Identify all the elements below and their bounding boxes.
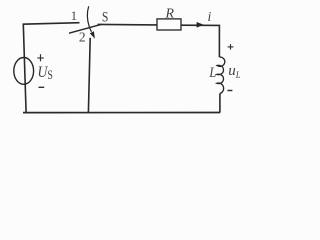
resistor R box bbox=[157, 19, 181, 30]
plus sign at source bbox=[37, 54, 43, 61]
svg-text:L: L bbox=[208, 65, 216, 81]
current arrowhead i bbox=[197, 22, 204, 28]
minus sign at source bbox=[39, 86, 45, 88]
switch arrowhead bbox=[90, 31, 95, 38]
wire: coil bottom to bottom wire bbox=[219, 94, 221, 113]
switch throw arc bbox=[87, 6, 91, 32]
wire: top-left wire, corner, left branch down to bottom bbox=[23, 23, 79, 113]
svg-text:1: 1 bbox=[71, 9, 77, 23]
svg-text:u: u bbox=[228, 63, 236, 79]
svg-text:S: S bbox=[47, 68, 53, 82]
wire: bottom wire bbox=[23, 112, 220, 114]
svg-text:2: 2 bbox=[79, 30, 86, 45]
wire: resistor to top-right corner down to coil bbox=[181, 25, 219, 57]
wire: switch pole to resistor bbox=[98, 23, 158, 26]
minus sign at uL bbox=[227, 90, 232, 92]
voltage source US circle bbox=[14, 58, 34, 85]
svg-text:R: R bbox=[165, 6, 175, 21]
svg-text:S: S bbox=[102, 10, 109, 26]
inductor L coil bbox=[217, 57, 225, 94]
svg-text:i: i bbox=[208, 9, 212, 24]
plus sign at uL bbox=[228, 44, 234, 50]
switch S blade bbox=[69, 24, 102, 33]
wire: middle vertical wire from contact 2 to bottom bbox=[88, 38, 90, 113]
svg-text:L: L bbox=[235, 70, 241, 81]
